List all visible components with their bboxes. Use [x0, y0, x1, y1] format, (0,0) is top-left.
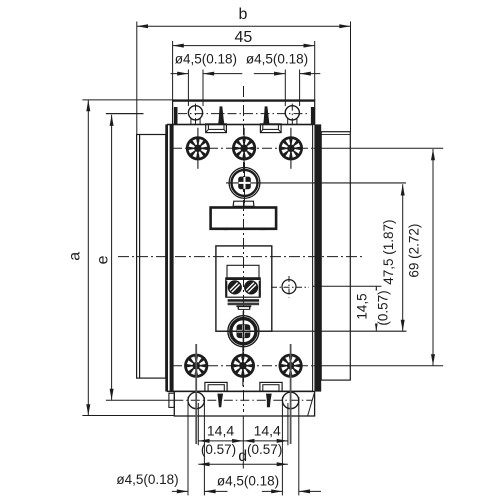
top screw L3: [279, 128, 303, 169]
main horizontal centerline: [118, 256, 365, 258]
bottom hole centerline: [106, 399, 312, 401]
svg-text:(0.57): (0.57): [247, 442, 282, 457]
bottom clip right: [266, 394, 272, 408]
top terminal screws row line: [172, 147, 313, 149]
dim d line: [198, 462, 288, 466]
right rail outline: [321, 132, 350, 380]
svg-text:47,5 (1.87): 47,5 (1.87): [381, 219, 396, 284]
bottom screw T2: [231, 345, 255, 386]
top screw L2: [232, 128, 256, 169]
bottom screw T3: [279, 345, 303, 386]
center screw lower: [216, 311, 407, 352]
coil terminal block: [226, 278, 260, 297]
screw vertical lines bottom: [196, 344, 290, 444]
top lug plate: [173, 100, 315, 125]
center screw upper: [226, 163, 406, 204]
svg-text:(0.57): (0.57): [376, 290, 391, 325]
top mounting hole left: [188, 106, 202, 125]
svg-text:14,4: 14,4: [207, 422, 234, 438]
dim bottom dia: [172, 397, 321, 495]
svg-text:(0.57): (0.57): [201, 442, 236, 457]
svg-text:e: e: [94, 255, 111, 264]
dim 47,5 line: [401, 184, 405, 331]
body bottom edge: [167, 390, 313, 392]
hatched bar: [228, 299, 260, 305]
top clip right: [263, 106, 269, 124]
bottom plate right bevel: [308, 392, 315, 416]
left rail outline: [137, 135, 166, 379]
coil screw A2: [245, 281, 258, 294]
isolated circle right: [271, 276, 309, 298]
svg-text:ø4,5(0.18): ø4,5(0.18): [175, 52, 237, 67]
coil terminal upper rect: [227, 265, 259, 278]
svg-text:b: b: [238, 6, 247, 23]
dim b line: [137, 22, 351, 135]
coil screw A1: [228, 281, 241, 294]
plate bottom ticks: [224, 228, 265, 231]
top mounting hole right: [285, 106, 299, 125]
top hole centerline: [106, 104, 310, 128]
top screw L1: [186, 128, 210, 169]
dim 69 line: [314, 148, 444, 365]
label plate: [211, 208, 277, 229]
svg-text:14,4: 14,4: [254, 422, 281, 438]
body left dark band: [165, 124, 173, 391]
bottom cover right: [260, 382, 282, 391]
svg-text:69 (2.72): 69 (2.72): [407, 224, 422, 278]
main vertical centerline: [243, 86, 245, 412]
svg-text:ø4,5(0.18): ø4,5(0.18): [246, 52, 308, 67]
bottom plate: [174, 391, 314, 416]
dim a line: [82, 100, 174, 416]
dim top dia right: [254, 70, 320, 107]
bottom clip left: [217, 394, 223, 408]
svg-text:ø4,5(0.18): ø4,5(0.18): [217, 473, 279, 488]
bottom hole right: [282, 392, 298, 408]
bottom cover left: [205, 382, 227, 391]
dim 45 line: [173, 41, 315, 100]
svg-text:14,5: 14,5: [355, 293, 370, 319]
dim 14,4 line: [198, 403, 288, 469]
dim e line: [106, 114, 144, 400]
small tab below hatch: [236, 306, 251, 309]
bottom screw T1: [184, 345, 208, 386]
label 0.57 vertical: [374, 291, 390, 324]
svg-text:45: 45: [235, 29, 253, 46]
top clip left: [218, 106, 224, 124]
label plate tab: [233, 201, 254, 206]
dim 14,5 line: [313, 286, 382, 331]
top cover right: [260, 124, 281, 133]
top cover left: [206, 124, 227, 133]
dim top dia left: [171, 70, 243, 107]
coil box: [216, 246, 272, 331]
bottom hole left: [188, 392, 204, 408]
svg-text:ø4,5(0.18): ø4,5(0.18): [116, 472, 178, 487]
body right dark band: [313, 124, 322, 391]
bottom screws row line: [172, 365, 313, 367]
svg-text:a: a: [66, 252, 83, 261]
svg-text:d: d: [238, 448, 247, 465]
bottom latch left: [169, 393, 174, 407]
body top edge: [167, 124, 313, 126]
